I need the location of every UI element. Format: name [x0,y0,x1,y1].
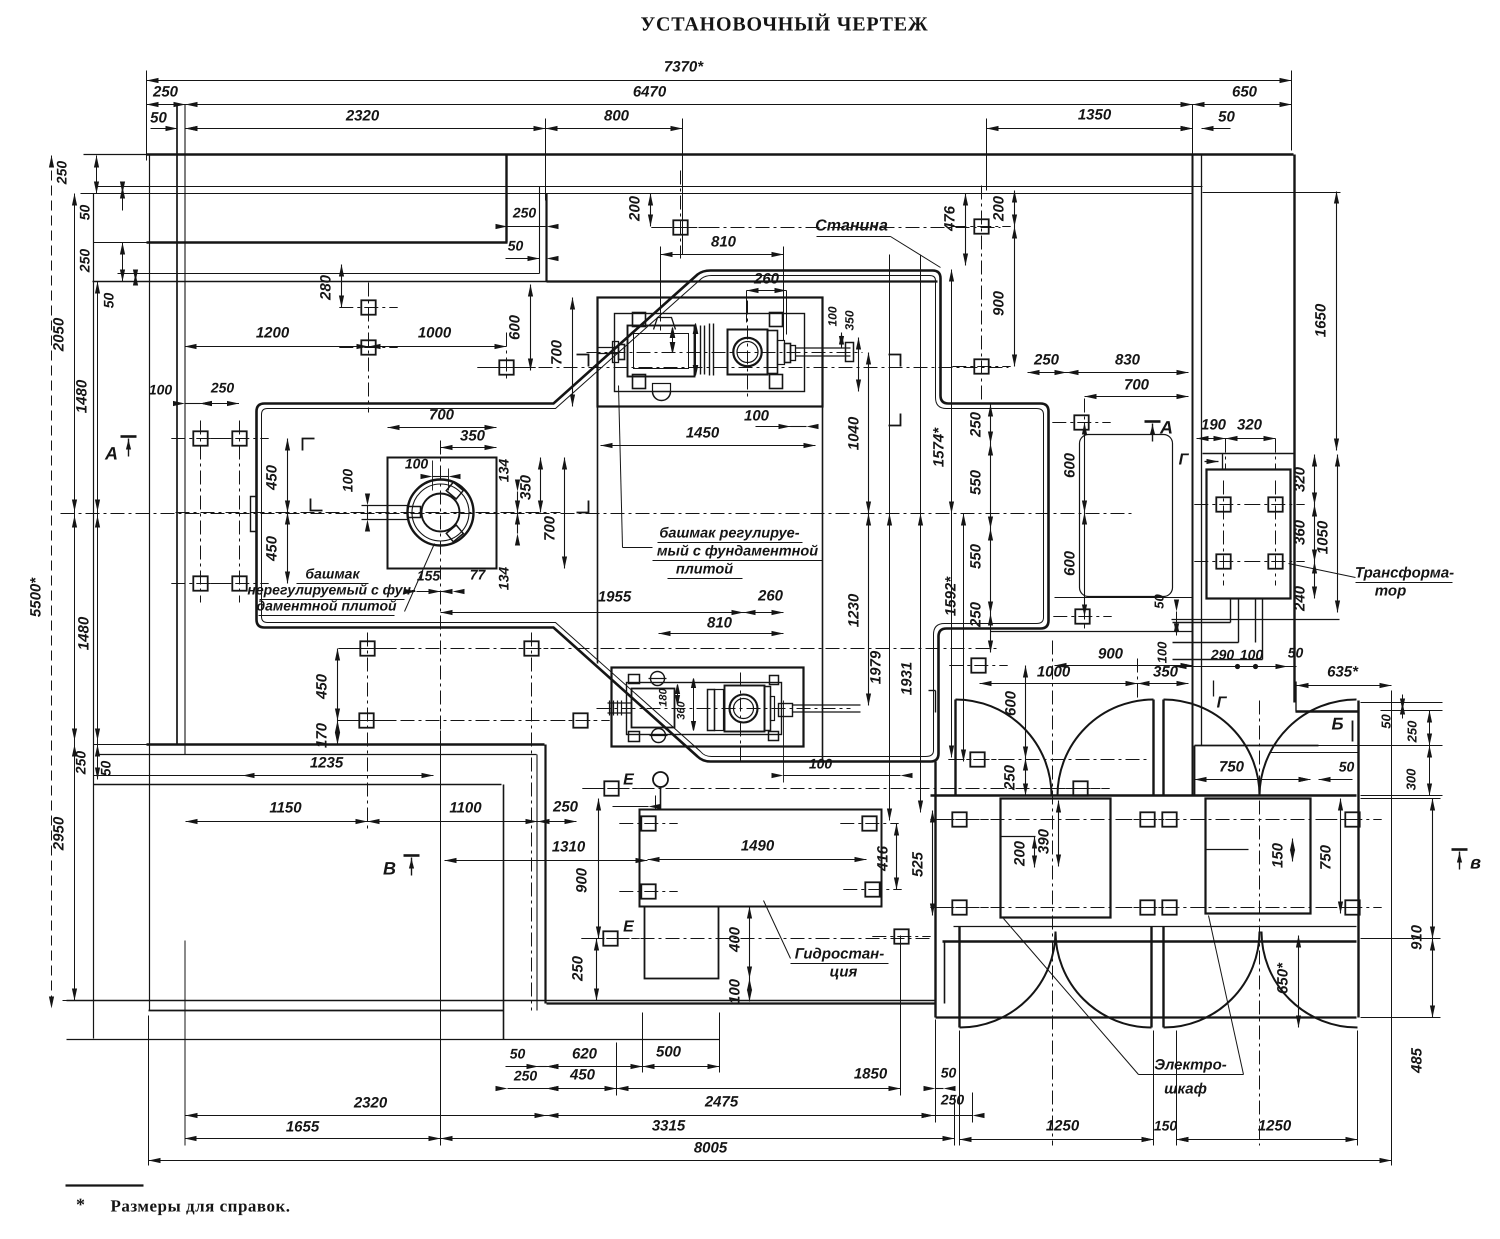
svg-text:800: 800 [604,108,630,125]
dimension 100 hydro [749,979,751,1002]
ext verticals bottom [184,941,186,1146]
svg-text:50: 50 [77,205,93,221]
dimension 650 top-right [1193,104,1292,106]
dimension 134 dn [517,513,519,534]
dimension 650* [1298,936,1300,1028]
dimension 280 [341,265,343,308]
svg-text:250: 250 [73,751,89,776]
hydro sub box [645,907,719,979]
dimension 200 left [650,194,652,227]
colline x1137 [1137,659,1139,701]
dimension 3315 [441,1138,955,1140]
svg-text:1955: 1955 [598,589,632,606]
svg-text:2050: 2050 [51,317,68,352]
shoe outer circle [408,480,474,546]
svg-text:100: 100 [149,382,173,398]
svg-text:7370*: 7370* [664,59,704,76]
dimension 1230 [868,514,870,706]
dimension 250 top-left [147,104,186,106]
dimension 250 col b [990,614,992,653]
ext v x682 [682,119,684,255]
dimension 1050 [1337,455,1339,613]
line 1592* [963,514,965,762]
section mark A left [121,435,137,438]
anchor bolt B-c5 [952,900,966,914]
svg-text:Размеры для справок.: Размеры для справок. [110,1197,290,1216]
bed left tab [251,497,257,532]
trench step vertical thick [545,194,547,282]
svg-text:700: 700 [542,515,559,541]
left stack 250-1 [96,156,98,194]
t ext [1225,439,1227,471]
E row centerline 2 [591,938,931,940]
svg-text:450: 450 [569,1067,596,1084]
svg-text:2950: 2950 [51,816,68,851]
dimension 250 hydro [596,939,598,1001]
svg-text:910: 910 [1409,924,1426,950]
U1 axis centerline [587,352,863,354]
svg-text:600: 600 [1062,550,1079,576]
pit corner mark BR2 [889,414,901,426]
transformer pipes b [1255,599,1257,643]
svg-text:1235: 1235 [310,755,344,772]
dimension 450 dn [287,513,289,584]
dimension 800 top [546,128,683,130]
dimension 550 col a [990,444,992,529]
row 648 centerline [351,648,999,650]
dimension 810 bottom [659,633,784,635]
transformer pipes a [1230,599,1232,623]
cabinet1 inner line [1001,836,1036,838]
anchor bolt B-t4 [1268,554,1282,568]
cabinet row centerline 2 [941,907,1366,909]
E mark upper arrow [613,806,649,808]
dimension 1100 [368,821,538,823]
dimension 1000 cab [980,683,1138,685]
dimension 7370* [147,80,1292,82]
svg-text:250: 250 [1405,720,1420,743]
ext v x146 [146,71,148,161]
right wall inner b [1201,156,1203,746]
svg-text:416: 416 [875,845,892,872]
left wall outer [149,156,151,1011]
electric cabinet 1 (Электрошкаф) [1001,799,1111,918]
svg-text:900: 900 [574,867,591,893]
svg-text:Г: Г [1179,452,1190,469]
svg-text:50: 50 [101,293,117,309]
pit bottom line a [547,1002,936,1004]
anchor bolt B4 [232,576,246,590]
svg-text:5500*: 5500* [28,577,45,617]
svg-text:6470: 6470 [633,84,667,101]
svg-text:150: 150 [1270,842,1287,868]
svg-text:нерегулируемый с фун-: нерегулируемый с фун- [247,582,416,598]
door swing D6 [1056,932,1152,1028]
dimension 1450 [601,445,816,447]
anchor bolt B13b [970,752,984,766]
dimension 700 mid [1085,396,1189,398]
anchor bolt B8 [673,220,687,234]
row 367 centerline [489,367,1009,369]
dimension 600 col b [1084,513,1086,617]
dimension 320 t [1226,438,1276,440]
svg-text:50: 50 [1152,594,1167,609]
shoe key top-right [446,482,463,499]
dimension 1955 [441,612,744,614]
top pit left wall ext [597,407,599,664]
dimension 260 bottom [744,612,784,614]
anchor bolt B11 [1074,415,1088,429]
svg-text:1450: 1450 [686,425,720,442]
door swing D7 [1164,932,1260,1028]
anchor bolt B12 [1075,609,1089,623]
bottom machine pit [612,668,804,747]
260 ext [746,291,748,323]
anchor bolt B-c2 [1140,812,1154,826]
dim 50 pit v [1176,612,1178,620]
svg-text:600: 600 [1003,690,1020,716]
transformer box [1207,470,1291,599]
svg-text:250: 250 [152,84,179,101]
dimension 320 tr [1314,455,1316,505]
svg-text:750: 750 [1318,844,1335,870]
svg-text:250: 250 [54,161,70,186]
svg-text:50: 50 [510,1046,526,1062]
svg-text:50: 50 [1339,759,1355,775]
dimension 250 mid [1028,372,1067,374]
svg-text:в: в [1470,853,1481,873]
svg-text:170: 170 [314,722,331,748]
colline x531 [531,633,533,1011]
U2 axis centerline [597,708,851,710]
1235 tail [94,775,243,777]
svg-text:1979: 1979 [868,650,885,684]
ext v x1291 [1291,71,1293,151]
svg-text:3315: 3315 [652,1118,686,1135]
svg-text:1931: 1931 [899,662,916,695]
dimension 350 m1 [858,338,860,392]
svg-text:100: 100 [744,408,770,425]
svg-text:Б: Б [1331,715,1343,734]
dimension 1490 [648,859,867,861]
anchor bolt B6 [361,340,375,354]
svg-text:100: 100 [340,469,356,493]
dimension 600 cab [1025,666,1027,759]
shoe centerline h [176,512,561,514]
dimension 830 [1067,372,1189,374]
svg-text:1592*: 1592* [943,576,960,616]
row 227 centerline [656,227,1001,229]
upper trench line a [96,186,1203,188]
svg-text:1574*: 1574* [931,427,948,467]
dimension 100 bolts [185,403,200,405]
cabinet block left wall [934,762,936,1018]
mark I top [935,691,937,713]
pipe dim [1175,666,1297,668]
svg-text:2475: 2475 [704,1094,739,1111]
svg-text:320: 320 [1237,417,1263,434]
colline x660top [660,251,662,331]
svg-text:50: 50 [508,238,524,254]
door leaf D3 [1162,700,1164,796]
svg-text:600: 600 [507,314,524,340]
svg-text:Электро-: Электро- [1154,1057,1227,1074]
door swing D1 [956,700,1052,796]
lower ledge thick [94,744,147,746]
svg-text:350: 350 [460,428,486,445]
line 1574* [951,270,953,758]
transformer pit top [1203,453,1295,455]
dimension 550 col b [990,529,992,614]
row 720 centerline [351,720,601,722]
dim 50 niche [1299,777,1311,782]
hydro pit left wall [503,785,505,1040]
dimension 1000 [369,346,507,348]
dimension 360 tr [1314,505,1316,562]
anchor bolt B-h3 [641,884,655,898]
dimension 1650 [1336,192,1338,451]
svg-text:1480: 1480 [74,379,91,413]
dimension 416 [896,824,898,890]
dim 150 cab2 [1142,1137,1154,1142]
left wall inner a [176,105,178,745]
right ext lines [1361,798,1441,800]
shoe base plate [388,458,497,569]
svg-text:1150: 1150 [269,800,302,817]
dimension 500 [643,1066,720,1068]
svg-text:*: * [76,1195,85,1215]
dimension 476 [965,194,967,266]
svg-text:башмак: башмак [305,566,360,582]
svg-text:830: 830 [1115,352,1141,369]
anchor bolt B-e4 [894,929,908,943]
svg-text:ция: ция [830,964,858,981]
dimension 250 cab [1025,759,1027,796]
svg-text:350: 350 [518,474,535,500]
svg-text:даментной плитой: даментной плитой [256,598,397,614]
row 759 centerline [951,759,1151,761]
upper trench bottom left [118,273,540,275]
dimension 350 cab [1138,683,1189,685]
svg-text:А: А [1159,418,1173,438]
upper trench line b [81,193,1193,195]
svg-text:260: 260 [753,271,780,288]
dim 250 rightcol [1429,711,1431,746]
dim 5500* [51,156,53,1009]
pit A rounded [1080,435,1173,597]
electric cabinet 2 (Электрошкаф) [1206,799,1311,914]
svg-text:1850: 1850 [854,1066,888,1083]
svg-text:Е: Е [623,772,635,789]
dim 100 pit v [1176,620,1178,636]
svg-text:550: 550 [968,543,985,569]
anchor bolt B-h1 [641,816,655,830]
svg-text:250: 250 [1002,764,1019,791]
bolt col x239 [239,421,241,603]
U1 pump centerline [747,301,749,401]
corner box [1295,682,1297,712]
anchor bolt B-c1 [952,812,966,826]
cabinet block bottom [936,1016,1357,1018]
left stack 50-2 [135,274,137,282]
svg-text:1480: 1480 [76,616,93,650]
hydro handle circle [653,772,668,787]
svg-text:1650: 1650 [1313,303,1330,337]
dim 50 arrows row3 [166,126,178,131]
dimension 1250 a [960,1139,1154,1141]
svg-text:1490: 1490 [741,838,775,855]
svg-text:476: 476 [942,205,959,232]
svg-text:Станина: Станина [815,218,888,235]
dimension 77 [441,591,453,593]
svg-text:485: 485 [1409,1047,1426,1074]
svg-text:В: В [383,859,396,879]
colline x1084 [1084,399,1086,629]
pit corner mark TR2 [889,355,901,367]
svg-text:250: 250 [512,205,537,221]
svg-text:150: 150 [1154,1118,1178,1134]
ext v x986 [986,119,988,191]
cabinet lower wall b [943,940,1357,942]
dimension 1150 [186,821,368,823]
pit corner mark BL [311,499,323,511]
svg-text:А: А [104,444,118,464]
upper trench bottom left outer [93,281,547,283]
hydro handle stem [660,787,662,810]
svg-text:280: 280 [318,274,335,301]
cabinet2 inner line [1206,849,1249,851]
pit bottom line b [67,1000,936,1002]
cabinet upper wall [931,794,1357,796]
outer right edge [1293,155,1295,703]
svg-text:Г: Г [1217,695,1228,712]
svg-text:100: 100 [1155,641,1170,663]
upper-left porch bottom [94,242,147,244]
anchor bolt B-e3 [603,931,617,945]
left stack 250-2 [122,243,124,282]
dimension 250 col a [990,405,992,444]
svg-text:1100: 1100 [449,800,482,817]
svg-text:250: 250 [570,955,587,982]
dimension 450 b [547,1088,617,1090]
door swing D5 [960,932,1056,1028]
dimension 50 b3 [936,1088,944,1090]
svg-text:50: 50 [1379,714,1394,729]
svg-text:450: 450 [314,673,331,700]
anchor bolt B-h2 [862,816,876,830]
svg-text:550: 550 [968,469,985,495]
dimension 100 shoe left [367,506,369,520]
svg-text:мый с фундаментной: мый с фундаментной [657,544,818,560]
outer left edge [93,194,95,1039]
cabinet block right wall [1357,701,1359,1018]
pipe duct lines [1173,622,1231,624]
anchor bolt B16 [359,713,373,727]
dimension 900 right [1014,227,1016,367]
svg-text:250: 250 [968,601,985,628]
door leaf D2 [1152,700,1154,796]
svg-text:700: 700 [429,407,455,424]
anchor bolt B15 [524,641,538,655]
hydro station (Гидростанция) [640,810,882,907]
dimension 250 b2 [508,1088,547,1090]
left stack 50-1 [122,187,124,211]
svg-text:тор: тор [1375,583,1406,600]
svg-text:360: 360 [676,700,688,719]
dimension 8005 [149,1160,1392,1162]
dimension 1040 [868,353,870,514]
dimension 600 col a [1084,423,1086,513]
dimension 2475 [547,1115,934,1117]
svg-text:1000: 1000 [418,325,452,342]
dimension 100 top [791,426,807,428]
section mark A right [1145,420,1161,423]
dimension 200 right [1014,191,1016,227]
svg-text:650: 650 [1232,84,1258,101]
shoe key bottom-right [446,525,463,542]
svg-text:250: 250 [968,411,985,438]
svg-text:250: 250 [210,380,235,396]
dimension 400 [749,907,751,979]
svg-text:2320: 2320 [345,108,380,125]
svg-text:1350: 1350 [1078,107,1112,124]
hydro pit top [94,784,502,786]
door swing D4 [1260,700,1357,796]
dimension 700 shoe [388,427,497,429]
dimension 6470 [186,104,1193,106]
svg-text:250: 250 [77,249,93,274]
svg-text:650*: 650* [1275,962,1292,994]
svg-text:50: 50 [1288,645,1304,661]
svg-text:1250: 1250 [1046,1118,1080,1135]
dim 50 rightcol [1402,695,1404,719]
door leaf D7 [1162,927,1164,1028]
colline x680 [680,171,682,259]
dimension 50 b1 [539,1066,547,1068]
anchor bolt B-t1 [1216,497,1230,511]
svg-text:400: 400 [727,926,744,953]
svg-text:50: 50 [98,761,114,777]
dimension 750 niche [1195,779,1311,781]
dimension 1200 [185,346,369,348]
svg-text:810: 810 [711,234,737,251]
left stack end line [63,1000,96,1002]
dimension 100 bottom machine [784,775,901,777]
bolt col x200 [200,421,202,603]
svg-text:Гидростан-: Гидростан- [795,946,884,963]
E row centerline 1 [591,788,1101,790]
transformer bolt col a [1223,481,1225,586]
svg-text:плитой: плитой [676,562,733,578]
pit line right of bed [991,631,1193,633]
svg-text:635*: 635* [1327,664,1359,681]
dim 50 step [528,256,540,261]
dim 50 top right [1181,126,1193,131]
ext v x660 [660,247,662,319]
section mark B right [1452,848,1468,851]
anchor bolt B-c7 [1162,900,1176,914]
ledge step vertical b [536,755,538,1011]
line 1931 [920,255,922,813]
colline x368 [368,283,370,413]
transformer pit bottom [1172,619,1340,621]
dimension 1250 b [1177,1139,1358,1141]
anchor bolt B-c8 [1345,900,1359,914]
svg-text:180: 180 [658,687,670,706]
svg-text:350: 350 [843,310,857,330]
dimension 1235 [243,775,434,777]
svg-text:360: 360 [1292,519,1309,545]
